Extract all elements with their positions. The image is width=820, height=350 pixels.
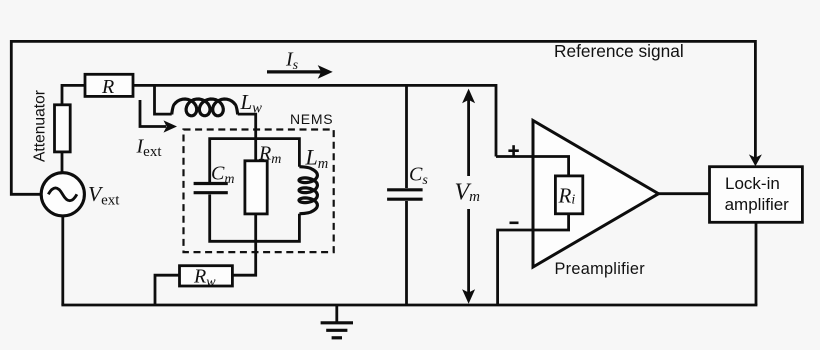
arrow: Vm measurement double arrow [462,89,475,304]
wire: Lw to NEMS center [238,114,256,161]
wire: preamp output to lock-in [659,192,710,195]
NEMS dashed box [184,130,334,253]
op-amp U1 preamplifier triangle [533,121,659,268]
svg-text:NEMS: NEMS [290,111,333,127]
wire: Rw to bottom rail [155,275,180,305]
resistor Rw [180,266,233,286]
label: plus input [508,145,518,156]
wire: Rm to NEMS bottom rail and down to Rw [232,214,255,275]
wire: attenuator to source [61,152,64,173]
wire: attenuator to resistor R [62,85,85,104]
svg-text:R: R [101,76,114,98]
wire: NEMS inner top rail [210,139,300,182]
ground [321,305,353,338]
wire: Cs branch [405,85,408,188]
capacitor Cs [387,188,423,191]
wire: lock-in to bottom rail [755,222,758,305]
svg-text:Preamplifier: Preamplifier [555,260,646,278]
capacitor Cm [194,182,228,185]
attenuator resistor box [55,105,71,152]
svg-text:Lock-in: Lock-in [725,174,780,193]
wire: minus input from bottom rail to Ri bottom [498,215,569,306]
svg-text:Reference signal: Reference signal [554,41,684,61]
arrow Iext [140,100,177,133]
resistor R [85,74,133,96]
AC source Vext [41,173,84,216]
wire: main rail from R to preamp + corner [133,85,496,156]
inductor Lm [299,167,317,214]
lock-in amplifier box [710,167,803,223]
wire: plus input into preamp and to Ri top [496,157,569,176]
wire: NEMS inner bottom rail [210,195,300,242]
resistor Rm [245,161,267,214]
svg-text:Attenuator: Attenuator [32,90,49,162]
wire: bottom rail [61,304,757,307]
inductor Lw [172,99,238,116]
wire: reference signal loop (left rail, top rail, right drop) [11,41,755,194]
svg-text:amplifier: amplifier [725,195,790,214]
resistor Ri [555,176,582,214]
wire: drop from rail to Lw [155,85,172,114]
arrow Is [267,65,333,79]
wire: source to bottom rail [61,215,64,305]
label: minus input [510,222,519,225]
arrowhead: reference signal into lock-in [749,154,762,166]
